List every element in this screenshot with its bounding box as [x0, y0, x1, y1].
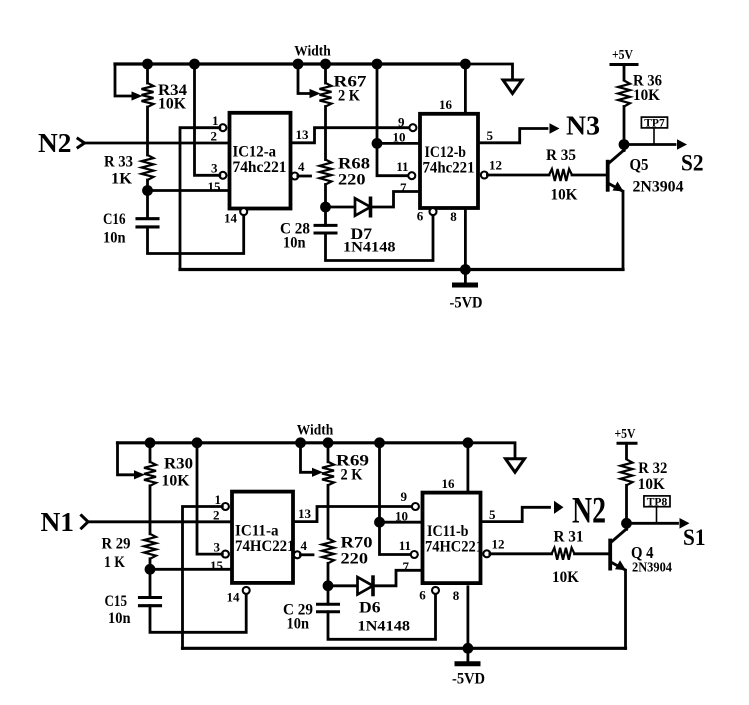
wire emitter to bottom rail: [624, 570, 627, 648]
wire R 32 to collector: [625, 485, 628, 529]
wire pin 13 to pin 9: [291, 128, 410, 143]
wire top rail to pin 11: [380, 443, 412, 555]
junction top rail / pin10 line: [374, 437, 385, 448]
wire to top ground: [468, 443, 515, 458]
wire R70 to junction: [327, 563, 330, 586]
resistor R 29 1 K: [144, 534, 156, 559]
svg-text:Width: Width: [294, 44, 331, 60]
diode D7 1N4148: [326, 206, 356, 209]
wire R 29 to C15: [149, 559, 152, 597]
test point TP8: [656, 507, 658, 524]
svg-text:8: 8: [453, 588, 460, 603]
wire to -5VD ground: [466, 648, 469, 662]
svg-text:11: 11: [396, 159, 408, 174]
input chevron N2: [78, 139, 85, 148]
wire top rail to pin 11: [377, 64, 409, 176]
junction top rail / pin3 line: [189, 59, 200, 70]
svg-text:14: 14: [227, 589, 241, 604]
junction top rail / pin16: [460, 59, 471, 70]
arrow node N2: [554, 501, 564, 514]
svg-text:IC11-a: IC11-a: [235, 522, 279, 539]
svg-text:1 K: 1 K: [104, 554, 125, 571]
wire R30 to R 29: [149, 486, 152, 534]
pin 14 circle IC11-a: [243, 587, 250, 594]
svg-text:1N4148: 1N4148: [343, 240, 396, 256]
junction top rail / wiper feed 2: [295, 437, 306, 448]
wire to -5VD ground: [464, 270, 467, 284]
svg-text:7: 7: [400, 180, 407, 195]
potentiometer R34 10K: [142, 83, 154, 107]
svg-text:S1: S1: [683, 525, 706, 550]
wire junction to pin 15: [150, 568, 232, 571]
pin 3 circle IC12-a: [219, 172, 226, 179]
potentiometer R67 2 K: [320, 83, 332, 107]
svg-text:1: 1: [212, 113, 219, 128]
svg-text:2: 2: [213, 507, 220, 522]
svg-text:IC12-a: IC12-a: [233, 144, 277, 161]
svg-text:1N4148: 1N4148: [358, 618, 411, 634]
svg-text:R70: R70: [341, 534, 373, 551]
svg-text:74hc221: 74hc221: [233, 159, 287, 176]
supply bar +5V: [611, 63, 637, 66]
wire pin 1 to bottom rail: [180, 128, 220, 270]
wire bottom rail net -5VD: [183, 647, 626, 650]
svg-text:N1: N1: [41, 507, 75, 537]
resistor R 35 10K: [549, 169, 572, 181]
svg-text:11: 11: [399, 538, 411, 553]
svg-text:9: 9: [401, 489, 408, 504]
wire pin 5 to node N3: [478, 129, 547, 143]
wire R34 to R 33: [146, 107, 149, 155]
svg-text:6: 6: [417, 209, 424, 224]
resistor R 36 10K: [618, 81, 630, 107]
svg-text:2 K: 2 K: [338, 88, 360, 105]
wire pin 16 to top rail: [464, 64, 467, 114]
svg-text:15: 15: [210, 558, 224, 573]
svg-text:Width: Width: [297, 422, 334, 438]
svg-text:10: 10: [393, 130, 406, 145]
svg-text:4: 4: [301, 538, 308, 553]
svg-text:6: 6: [419, 587, 426, 602]
wire pin 5 to node N2: [481, 507, 550, 521]
diode D6 1N4148: [328, 584, 358, 587]
svg-text:16: 16: [439, 97, 453, 112]
svg-text:16: 16: [442, 476, 456, 491]
wire to pin 10: [380, 521, 423, 524]
wire R34 top: [146, 64, 149, 83]
wire R30 top: [149, 443, 152, 462]
svg-text:+5V: +5V: [615, 426, 636, 441]
svg-text:10: 10: [395, 508, 408, 523]
svg-text:S2: S2: [681, 151, 704, 176]
wire R67 top: [324, 64, 327, 83]
svg-text:IC11-b: IC11-b: [427, 523, 469, 540]
arrow output S2: [677, 139, 687, 150]
svg-text:2: 2: [211, 129, 218, 144]
wire pin 16 to top rail: [466, 443, 469, 493]
junction top rail / R pot: [145, 437, 156, 448]
supply bar +5V: [618, 442, 636, 445]
svg-text:10K: 10K: [158, 96, 187, 113]
wire R69 to R70: [327, 485, 330, 538]
svg-text:14: 14: [224, 211, 238, 226]
junction R 29/C15/pin15: [145, 564, 156, 575]
wire C16 to pin14: [148, 215, 244, 254]
wiper arrow R69: [312, 468, 323, 477]
junction collector node: [621, 518, 632, 529]
svg-text:4: 4: [298, 159, 305, 174]
junction collector node: [619, 139, 630, 150]
pin 1 circle IC12-a: [219, 124, 226, 131]
svg-text:10K: 10K: [638, 476, 666, 493]
wire pin 3 to top rail: [197, 443, 222, 554]
svg-text:10K: 10K: [552, 569, 580, 586]
ground bar -5VD: [455, 283, 476, 288]
wire D7 to pin 7: [371, 192, 421, 208]
wire R68 to junction: [324, 185, 327, 208]
pin 12 circle IC11-b: [483, 550, 490, 557]
wire input N1 to pin 2: [89, 520, 233, 523]
capacitor C15 10n: [140, 596, 161, 599]
wire C15 to pin14: [150, 594, 246, 633]
wire to pin 10: [377, 142, 420, 145]
wire wiper feed R69: [301, 443, 312, 473]
wire R 31 to base: [575, 552, 609, 555]
capacitor C 29 10n: [327, 586, 330, 604]
wire +5V to R 32: [625, 443, 628, 459]
wire R67 to R68: [324, 107, 327, 160]
svg-text:2N3904: 2N3904: [632, 559, 672, 574]
test point TP7: [653, 128, 655, 145]
svg-text:1: 1: [215, 492, 222, 507]
wire pin 12 to R 35: [487, 174, 549, 177]
svg-text:TP7: TP7: [644, 118, 665, 130]
svg-text:3: 3: [211, 161, 218, 176]
junction top rail / R69: [323, 437, 334, 448]
IC IC12-a box: [230, 113, 291, 209]
svg-text:9: 9: [398, 115, 405, 130]
wire pin 13 to pin 9: [293, 507, 412, 522]
svg-text:C15: C15: [105, 593, 128, 610]
capacitor C16 10n: [137, 217, 158, 220]
junction bottom rail / ground: [463, 643, 474, 654]
pin 9 circle IC11-b: [412, 503, 419, 510]
svg-text:-5VD: -5VD: [452, 670, 485, 687]
IC IC11-b box: [423, 493, 481, 583]
wire top rail net GND: [118, 441, 468, 444]
svg-text:8: 8: [450, 209, 457, 224]
svg-text:R30: R30: [164, 455, 193, 472]
svg-text:+5V: +5V: [612, 47, 633, 62]
wiper arrow R67: [310, 89, 321, 98]
wire R 33 to C16: [146, 180, 149, 218]
svg-text:10n: 10n: [287, 615, 310, 632]
svg-text:10K: 10K: [162, 472, 191, 489]
pin 6 circle IC12-b: [430, 208, 437, 215]
junction R70/C 29/D6: [323, 580, 334, 591]
junction R 33/C16/pin15: [142, 185, 153, 196]
svg-text:74HC221: 74HC221: [235, 538, 295, 555]
wire wiper feed R30: [118, 443, 134, 475]
resistor R68 220: [320, 160, 332, 185]
wire D6 to pin 7: [373, 570, 423, 586]
wire C 28 to pin 6: [326, 215, 434, 261]
svg-text:R 33: R 33: [104, 154, 133, 171]
svg-text:R 29: R 29: [102, 535, 131, 552]
wire pin 4 stub: [300, 553, 313, 556]
svg-text:2N3904: 2N3904: [633, 179, 684, 196]
pin 14 circle IC12-a: [240, 208, 247, 215]
IC IC12-b box: [420, 114, 478, 208]
svg-text:220: 220: [341, 550, 369, 567]
svg-text:5: 5: [487, 128, 494, 143]
svg-text:R68: R68: [338, 156, 370, 173]
wire wiper feed R34: [115, 64, 131, 96]
IC IC11-a box: [232, 492, 293, 583]
junction R68/C 28/D7: [320, 202, 331, 213]
wire +5V to R 36: [623, 65, 626, 81]
svg-text:10K: 10K: [551, 187, 579, 204]
wiper arrow R30: [134, 470, 145, 479]
ground bar -5VD: [457, 661, 478, 666]
svg-text:IC12-b: IC12-b: [425, 144, 467, 161]
svg-text:N3: N3: [566, 111, 600, 141]
wire to top ground: [465, 64, 512, 79]
pin 11 circle IC12-b: [408, 172, 415, 179]
svg-text:10n: 10n: [103, 230, 126, 247]
arrow output S1: [680, 518, 690, 529]
svg-text:74HC221: 74HC221: [425, 538, 483, 555]
wire collector to S1: [627, 522, 678, 525]
wire bottom rail net -5VD: [180, 268, 623, 271]
pin 11 circle IC11-b: [411, 551, 418, 558]
svg-text:10n: 10n: [108, 610, 131, 627]
svg-text:-5VD: -5VD: [450, 295, 483, 312]
resistor R 32 10K: [621, 459, 633, 485]
potentiometer R69 2 K: [322, 462, 334, 486]
wire R69 top: [327, 443, 330, 462]
wire pin 8 to bottom rail: [466, 587, 469, 649]
svg-text:C16: C16: [103, 211, 126, 228]
svg-text:3: 3: [214, 539, 221, 554]
junction pin 10 branch: [372, 138, 383, 149]
wire R 35 to base: [572, 174, 606, 177]
resistor R 31 10K: [552, 548, 575, 560]
junction top rail / wiper feed 2: [293, 59, 304, 70]
transistor Q 4 2N3904: [608, 539, 612, 571]
svg-text:10K: 10K: [633, 87, 661, 104]
wire junction to pin 15: [148, 189, 230, 192]
svg-text:2 K: 2 K: [341, 466, 363, 483]
arrow node N3: [550, 123, 560, 134]
junction bottom rail / ground: [460, 264, 471, 275]
wire pin 4 stub: [298, 175, 311, 178]
pin 12 circle IC12-b: [481, 172, 488, 179]
wire collector to S2: [624, 143, 675, 146]
svg-text:5: 5: [489, 507, 496, 522]
junction pin 10 branch: [374, 517, 385, 528]
svg-text:Q5: Q5: [630, 155, 649, 174]
svg-text:R 31: R 31: [554, 528, 584, 545]
input chevron N1: [82, 516, 89, 529]
svg-text:1K: 1K: [111, 171, 133, 188]
wire C 29 to pin 6: [328, 594, 436, 640]
svg-text:D6: D6: [359, 599, 381, 616]
svg-text:7: 7: [403, 559, 410, 574]
wire R 36 to collector: [623, 107, 626, 151]
junction top rail / R pot: [142, 59, 153, 70]
svg-text:220: 220: [338, 172, 366, 189]
svg-text:74hc221: 74hc221: [423, 160, 475, 177]
junction top rail / pin16: [463, 437, 474, 448]
pin 3 circle IC11-a: [222, 551, 229, 558]
capacitor C 28 10n: [324, 207, 327, 225]
svg-text:R 35: R 35: [546, 147, 576, 164]
svg-text:R 32: R 32: [638, 460, 667, 477]
svg-text:12: 12: [489, 158, 502, 173]
wire pin 1 to bottom rail: [183, 507, 223, 649]
svg-text:TP8: TP8: [647, 496, 668, 508]
pin 4 circle IC12-a: [291, 173, 298, 180]
junction top rail / pin3 line: [192, 437, 203, 448]
svg-text:10n: 10n: [283, 235, 306, 252]
junction top rail / R67: [320, 59, 331, 70]
potentiometer R30 10K: [144, 462, 156, 486]
wire wiper feed R67: [298, 64, 309, 94]
transistor Q5 2N3904: [606, 160, 610, 192]
resistor R70 220: [322, 538, 334, 563]
svg-text:N2: N2: [38, 128, 72, 158]
pin 1 circle IC11-a: [222, 503, 229, 510]
junction top rail / pin10 line: [372, 59, 383, 70]
wire top rail net GND: [115, 62, 465, 65]
wire pin 8 to bottom rail: [464, 208, 467, 270]
ground symbol top (open triangle): [503, 80, 522, 94]
svg-text:13: 13: [296, 127, 310, 142]
pin 9 circle IC12-b: [409, 124, 416, 131]
svg-text:13: 13: [298, 506, 312, 521]
wire input N2 to pin 2: [86, 142, 230, 145]
wire pin 12 to R 31: [490, 552, 552, 555]
ground symbol top (open triangle): [506, 459, 525, 473]
resistor R 33 1K: [142, 155, 154, 180]
svg-text:12: 12: [492, 536, 505, 551]
wire pin 3 to top rail: [195, 64, 220, 175]
svg-text:N2: N2: [572, 491, 606, 532]
wire emitter to bottom rail: [622, 192, 625, 270]
pin 4 circle IC11-a: [294, 551, 301, 558]
wiper arrow R34: [132, 91, 143, 100]
pin 6 circle IC11-b: [432, 587, 439, 594]
svg-text:15: 15: [208, 179, 222, 194]
